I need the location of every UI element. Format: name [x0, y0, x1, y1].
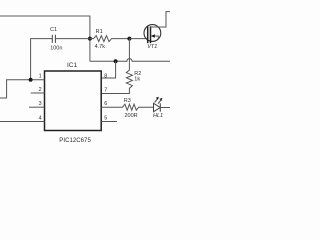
svg-text:VT1: VT1	[147, 44, 157, 50]
svg-text:C1: C1	[50, 27, 57, 33]
node junction pin1/C1 branch	[29, 78, 33, 82]
wire top rail and vertical drop	[0, 16, 90, 61]
resistor R3 with leads	[101, 104, 153, 110]
svg-text:HL1: HL1	[153, 113, 163, 119]
svg-text:5: 5	[104, 115, 107, 121]
wire supply rail y=61 with hop over R2 lead	[90, 59, 170, 62]
svg-text:4.7k: 4.7k	[95, 44, 106, 50]
capacitor C1	[52, 35, 55, 43]
wire pin 2 stub	[31, 92, 45, 94]
svg-text:1k: 1k	[134, 77, 140, 83]
wire pin 4 to left edge	[0, 121, 45, 123]
wire gate lead	[129, 38, 147, 40]
wire drain to top right edge	[151, 12, 171, 27]
svg-text:IC1: IC1	[67, 62, 78, 69]
transistor Q1 VT1 mosfet circle	[144, 25, 161, 42]
node junction gate/R2	[127, 37, 131, 41]
svg-text:2: 2	[39, 87, 42, 93]
svg-text:R3: R3	[124, 98, 131, 104]
LED HL1 emission arrows	[155, 99, 158, 103]
svg-text:1: 1	[39, 74, 42, 80]
LED HL1 cathode bar	[159, 103, 161, 111]
wire LED to right edge	[160, 107, 170, 109]
svg-text:7: 7	[104, 87, 107, 93]
node junction rail/pin8	[114, 59, 118, 63]
node junction C1/R1/top	[88, 37, 92, 41]
svg-text:8: 8	[104, 74, 107, 80]
wire C1 left lead with corner down	[31, 39, 53, 80]
transistor VT1 channel bar	[150, 26, 152, 43]
transistor VT1 gate bar	[147, 26, 149, 43]
svg-text:200R: 200R	[125, 113, 138, 119]
LED HL1 triangle	[154, 103, 161, 111]
svg-text:100n: 100n	[50, 46, 62, 52]
svg-text:4: 4	[39, 115, 42, 121]
resistor R2 vertical with leads	[101, 39, 132, 94]
wire pin 1 with staircase to left edge	[0, 80, 45, 98]
resistor R1	[90, 36, 129, 42]
wire pin8 branch	[101, 61, 115, 78]
wire C1 right lead	[55, 38, 90, 40]
transistor VT1 substrate arrow	[154, 36, 158, 40]
svg-text:R1: R1	[96, 29, 103, 35]
svg-text:PIC12C675: PIC12C675	[59, 138, 91, 144]
svg-text:3: 3	[39, 101, 42, 107]
wire pin 3 stub	[29, 106, 45, 108]
IC U1 box	[45, 71, 102, 131]
wire pin 5 stub	[101, 121, 117, 123]
svg-text:6: 6	[104, 101, 107, 107]
